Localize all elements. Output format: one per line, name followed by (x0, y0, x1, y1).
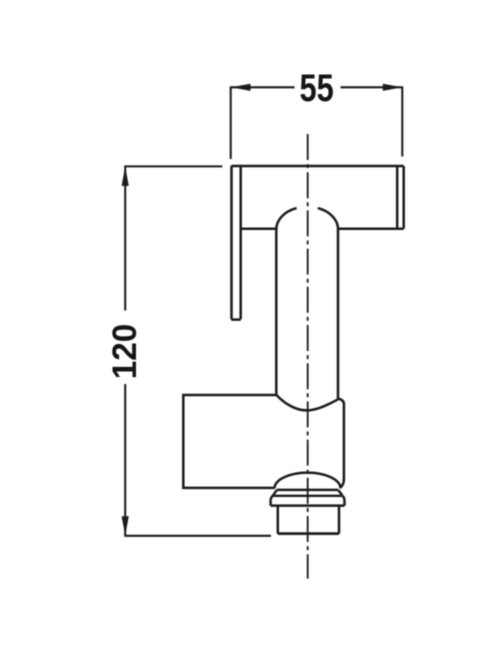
body tube : top shoulder arc left (276, 208, 296, 229)
dimension 55 : right arrowhead (383, 84, 403, 91)
collar ring : bottom line (271, 504, 345, 506)
collar ring : left side (271, 496, 273, 506)
bracket arm : outer left line (230, 166, 233, 319)
dimension 120 : dimension line lower segment (124, 384, 126, 536)
body tube : right side (337, 229, 340, 399)
collar ring : top line (273, 495, 343, 497)
waist saddle curve (276, 395, 338, 411)
lower body : right step and side (338, 399, 344, 488)
dimension 55 : dimension line left segment (231, 86, 295, 88)
bracket arm : bottom cap (232, 318, 240, 321)
dimension 120 : dimension line upper segment (124, 166, 126, 310)
chamfer ring : top line (277, 489, 338, 491)
dimension 120 : bottom extension line (124, 535, 271, 537)
chamfer ring : left flare (273, 490, 277, 496)
dimension 120 : up arrowhead (122, 166, 129, 186)
dimension 120 : down arrowhead (122, 516, 129, 536)
dimension 55 : dimension line right segment (341, 86, 403, 88)
holder bar : top edge (231, 165, 403, 168)
holder bar : right outer end line (402, 166, 405, 229)
dimension 55 : right extension line (401, 86, 403, 156)
dimension 55 : left arrowhead (231, 84, 251, 91)
chamfer ring : right flare (338, 490, 342, 496)
svg-text:55: 55 (299, 67, 333, 110)
bottom dome arc (275, 473, 341, 489)
outlet nozzle : bottom edge (278, 532, 339, 535)
outlet nozzle : right side (338, 506, 341, 534)
grip bracket : outline (top edge, left side, bottom edge) (183, 395, 276, 488)
body tube : left side (275, 229, 278, 395)
holder bar : right inner end-cap line (396, 166, 399, 229)
bracket arm : inner left line (239, 166, 242, 319)
outlet nozzle : left side (277, 506, 280, 534)
centerline (vertical dash-dot axis) (307, 134, 309, 579)
svg-text:120: 120 (107, 324, 144, 380)
collar ring : right side (342, 496, 344, 506)
dimension 55 : left extension line (230, 86, 232, 159)
holder bar : bottom edge right segment (338, 227, 404, 230)
holder bar : bottom edge left segment (241, 227, 277, 230)
body tube : top shoulder arc right (318, 208, 338, 229)
dimension 120 : top extension line (124, 165, 222, 167)
